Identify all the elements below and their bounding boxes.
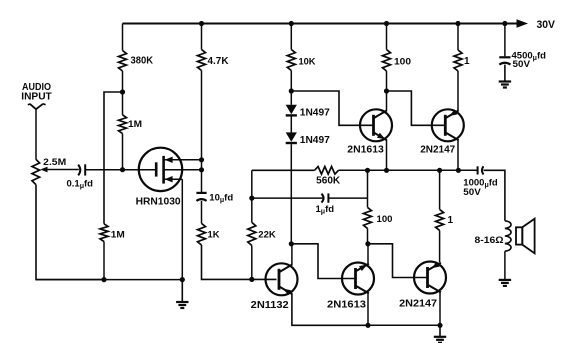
svg-text:2N2147: 2N2147 — [420, 144, 455, 156]
label 1-ohm lower — [448, 215, 454, 226]
wire 10ufd to 1K — [201, 201, 203, 224]
wire collector node down — [386, 91, 388, 111]
arrow 30V supply — [517, 19, 529, 28]
transistor 2N1613 lower emitter top — [356, 264, 369, 272]
wire 2N1613 emitter up — [367, 244, 369, 264]
node 2N1613 collector junction upper — [384, 88, 389, 93]
svg-text:22K: 22K — [258, 230, 276, 241]
label 10ufd — [209, 192, 233, 204]
speaker voice coil — [505, 221, 511, 251]
label 2N1613 upper — [347, 144, 384, 156]
svg-text:1N497: 1N497 — [300, 135, 330, 146]
svg-text:2N2147: 2N2147 — [399, 298, 437, 310]
wire output to 1-ohm lower — [439, 170, 441, 209]
node bottom rail 2N1613 — [365, 323, 370, 328]
label 1000ufd — [463, 177, 498, 189]
wire 2N1613 collector down — [367, 293, 369, 325]
label 10K — [299, 56, 316, 67]
label 2N1613 lower — [327, 298, 366, 310]
wire top rail to 100 — [386, 24, 388, 50]
wire coil to ground — [504, 251, 506, 279]
node 380K/1M junction — [120, 89, 125, 94]
node top rail / 10K — [289, 21, 294, 26]
resistor 1M upper — [119, 115, 127, 134]
resistor 100 mid — [364, 207, 372, 228]
diode 1N497 first — [286, 91, 297, 115]
transistor 2N1613 lower body — [342, 263, 374, 295]
wire node to 1M — [122, 92, 124, 115]
capacitor 0.1ufd — [78, 164, 85, 175]
label 1N497 first — [300, 107, 330, 118]
node bottom rail ground — [437, 323, 442, 328]
label 1M upper — [128, 119, 142, 130]
label 1ufd — [316, 204, 335, 216]
capacitor 10ufd — [196, 193, 206, 201]
mosfet substrate lead — [164, 169, 202, 171]
label 4.7K — [208, 56, 230, 67]
capacitor 1000ufd — [478, 166, 484, 174]
transistor 2N1613 lower collector bottom — [356, 286, 369, 294]
node 22K top — [249, 196, 254, 201]
resistor 22K — [248, 222, 256, 245]
wire 380K to node — [122, 71, 124, 92]
wiper arrow 2.5M — [40, 167, 79, 173]
diode 1N497 second — [286, 132, 297, 143]
resistor 4.7K — [198, 50, 206, 71]
label 1K — [208, 230, 220, 241]
label 380K — [131, 56, 154, 67]
wire 1-ohm to top rail — [457, 24, 459, 51]
svg-text:1: 1 — [448, 215, 454, 226]
mosfet drain lead — [164, 157, 202, 163]
resistor 1K — [198, 223, 206, 245]
wire top rail to 4.7K — [201, 24, 203, 50]
label 22K — [258, 230, 276, 241]
svg-text:30V: 30V — [537, 19, 556, 31]
wire top rail to 10K — [290, 24, 292, 50]
potentiometer 2.5M — [32, 159, 40, 184]
svg-text:100: 100 — [377, 214, 393, 225]
transistor 2N2147 upper body — [432, 109, 464, 141]
wire node to lower 2N2147 base — [368, 244, 428, 278]
label 2.5M — [43, 157, 66, 168]
node lower 2N1613 collector junction — [365, 241, 370, 246]
node drain — [199, 157, 204, 162]
wire source to ground — [181, 179, 183, 279]
ground 4500ufd — [499, 65, 511, 88]
node top rail / 4.7K — [199, 21, 204, 26]
transistor 2N1613 upper emitter — [374, 132, 387, 140]
wire link down — [251, 170, 253, 198]
svg-text:560K: 560K — [316, 176, 341, 187]
wire 1ufd node to 100 — [367, 198, 369, 207]
wire diode node to 2N1613 base — [291, 91, 373, 125]
svg-text:4.7K: 4.7K — [208, 56, 230, 67]
svg-text:50V: 50V — [513, 59, 531, 70]
wire 22K top to 1ufd — [252, 197, 323, 199]
svg-text:1: 1 — [464, 56, 470, 67]
wire left ground rail — [36, 279, 182, 281]
resistor 100 upper — [383, 50, 391, 71]
wire 2N1132 collector up — [291, 244, 293, 265]
wire link 1ufd-line — [367, 170, 369, 198]
transistor 2N2147 lower emitter top — [428, 262, 441, 271]
capacitor 1ufd — [322, 193, 329, 202]
wire node to 1M leg — [104, 92, 123, 224]
transistor 2N2147 lower body — [414, 262, 446, 294]
wire gate node to mosfet gate — [123, 169, 156, 171]
wire 1M leg to ground rail — [103, 242, 105, 280]
wire 100 to collector node — [367, 228, 369, 243]
label 2N2147 upper — [420, 144, 455, 156]
svg-text:INPUT: INPUT — [21, 91, 52, 103]
mosfet HRN1030 body — [139, 148, 182, 191]
label 1-ohm upper — [464, 56, 470, 67]
svg-text:1M: 1M — [111, 229, 125, 240]
node top rail / 4500ufd — [502, 21, 507, 26]
transistor 2N1132 body — [266, 263, 298, 295]
wire diodes to 2N1132 collector — [290, 144, 292, 244]
label 1N497 second — [300, 135, 330, 146]
wire 1M to gate node — [122, 134, 124, 170]
wire 2N1613 emitter to mid line — [386, 140, 388, 170]
wire cap to gate node — [85, 169, 122, 171]
wire 2N2147 collector down — [439, 292, 441, 325]
wire top rail to 380K — [122, 24, 124, 51]
svg-text:380K: 380K — [131, 56, 154, 67]
wire 1-ohm to 2N2147 collector — [439, 231, 441, 263]
node substrate — [199, 167, 204, 172]
wire 560K to output node — [339, 169, 478, 171]
capacitor 4500ufd — [499, 57, 510, 64]
svg-text:2.5M: 2.5M — [43, 157, 66, 168]
wire pot bottom to ground rail — [36, 185, 104, 280]
label 100 upper — [394, 56, 411, 67]
svg-text:100: 100 — [394, 56, 411, 67]
wire 22K to base wire — [251, 246, 253, 280]
svg-text:1N497: 1N497 — [300, 107, 330, 118]
transistor 2N2147 upper collector bottom — [445, 132, 458, 140]
resistor 10K — [287, 50, 295, 71]
transistor 2N1132 collector top — [279, 264, 292, 272]
mosfet source lead — [164, 176, 183, 182]
transistor 2N2147 upper emitter top — [445, 110, 458, 119]
node source / ground rail — [180, 277, 185, 282]
wire 4.7K to drain node — [201, 71, 203, 193]
svg-text:50V: 50V — [463, 187, 481, 198]
transistor 2N1613 upper body — [360, 109, 392, 141]
wire 100 to collector node — [386, 71, 388, 91]
svg-text:2N1613: 2N1613 — [327, 298, 366, 310]
resistor 22K leadin — [251, 198, 253, 222]
svg-text:8-16Ω: 8-16Ω — [475, 235, 504, 246]
wire between diodes — [290, 117, 292, 133]
label 8-16ohm — [475, 235, 504, 246]
label 4500ufd — [512, 51, 547, 63]
wire input to pot — [35, 109, 37, 159]
label 50V top — [513, 59, 531, 70]
resistor 560K — [315, 167, 339, 175]
node gate junction — [120, 167, 125, 172]
wire collector node to 2N1613 base — [291, 244, 355, 279]
node mid/emitter — [384, 168, 389, 173]
wire node to 2N2147 base — [387, 91, 446, 125]
node 1M leg / ground rail — [101, 277, 106, 282]
label 30V — [537, 19, 556, 31]
wire 2N2147 collector to output — [457, 140, 459, 170]
svg-text:1K: 1K — [208, 230, 220, 241]
transistor 2N2147 lower collector bottom — [428, 285, 441, 293]
label 2N1132 — [251, 299, 289, 311]
node mid/1-ohm lower — [437, 168, 442, 173]
wire 2N1132 emitter down — [292, 294, 368, 325]
node 22K / base wire — [249, 277, 254, 282]
wire 1ufd to 100 — [328, 197, 367, 199]
svg-text:1M: 1M — [128, 119, 142, 130]
svg-text:2N1132: 2N1132 — [251, 299, 289, 311]
wire 10K to diode node — [290, 71, 292, 92]
node 2N1132 collector junction — [289, 241, 294, 246]
wire top supply rail — [123, 23, 518, 25]
speaker body — [516, 219, 535, 254]
resistor 1-ohm upper — [454, 50, 462, 71]
resistor 1-ohm lower — [436, 209, 444, 230]
label AUDIO INPUT — [21, 81, 52, 102]
resistor 1M lower — [100, 224, 108, 242]
svg-text:HRN1030: HRN1030 — [136, 196, 181, 208]
wire rail to 4500ufd — [504, 24, 506, 57]
ground speaker — [499, 279, 511, 286]
wire 2N2147 emitter to 1-ohm — [457, 71, 459, 111]
transistor 2N1132 emitter bottom — [279, 286, 292, 295]
node mid/1ufd link — [365, 168, 370, 173]
ground bottom — [434, 325, 446, 343]
node diode top — [289, 88, 294, 93]
label 560K — [316, 176, 341, 187]
wire bottom rail right — [368, 324, 440, 326]
ground left — [176, 280, 188, 308]
svg-text:1μfd: 1μfd — [316, 204, 335, 216]
svg-text:10K: 10K — [299, 56, 316, 67]
resistor 380K — [119, 51, 127, 72]
node mid/2N2147 collector — [456, 168, 461, 173]
label 1M lower — [111, 229, 125, 240]
label 2N2147 lower — [399, 298, 437, 310]
label 50V bottom — [463, 187, 481, 198]
node top rail / 1-ohm — [455, 21, 460, 26]
label 100 mid — [377, 214, 393, 225]
wire 560K line left — [252, 169, 315, 171]
wire 1K to 2N1132 base — [202, 245, 277, 279]
terminal audio input — [28, 104, 46, 109]
wire cap to speaker — [484, 170, 505, 221]
svg-text:2N1613: 2N1613 — [347, 144, 384, 156]
label HRN1030 — [136, 196, 181, 208]
transistor 2N1613 upper collector — [374, 110, 387, 118]
node top rail / 100 — [384, 21, 389, 26]
label 0.1ufd — [67, 178, 94, 190]
